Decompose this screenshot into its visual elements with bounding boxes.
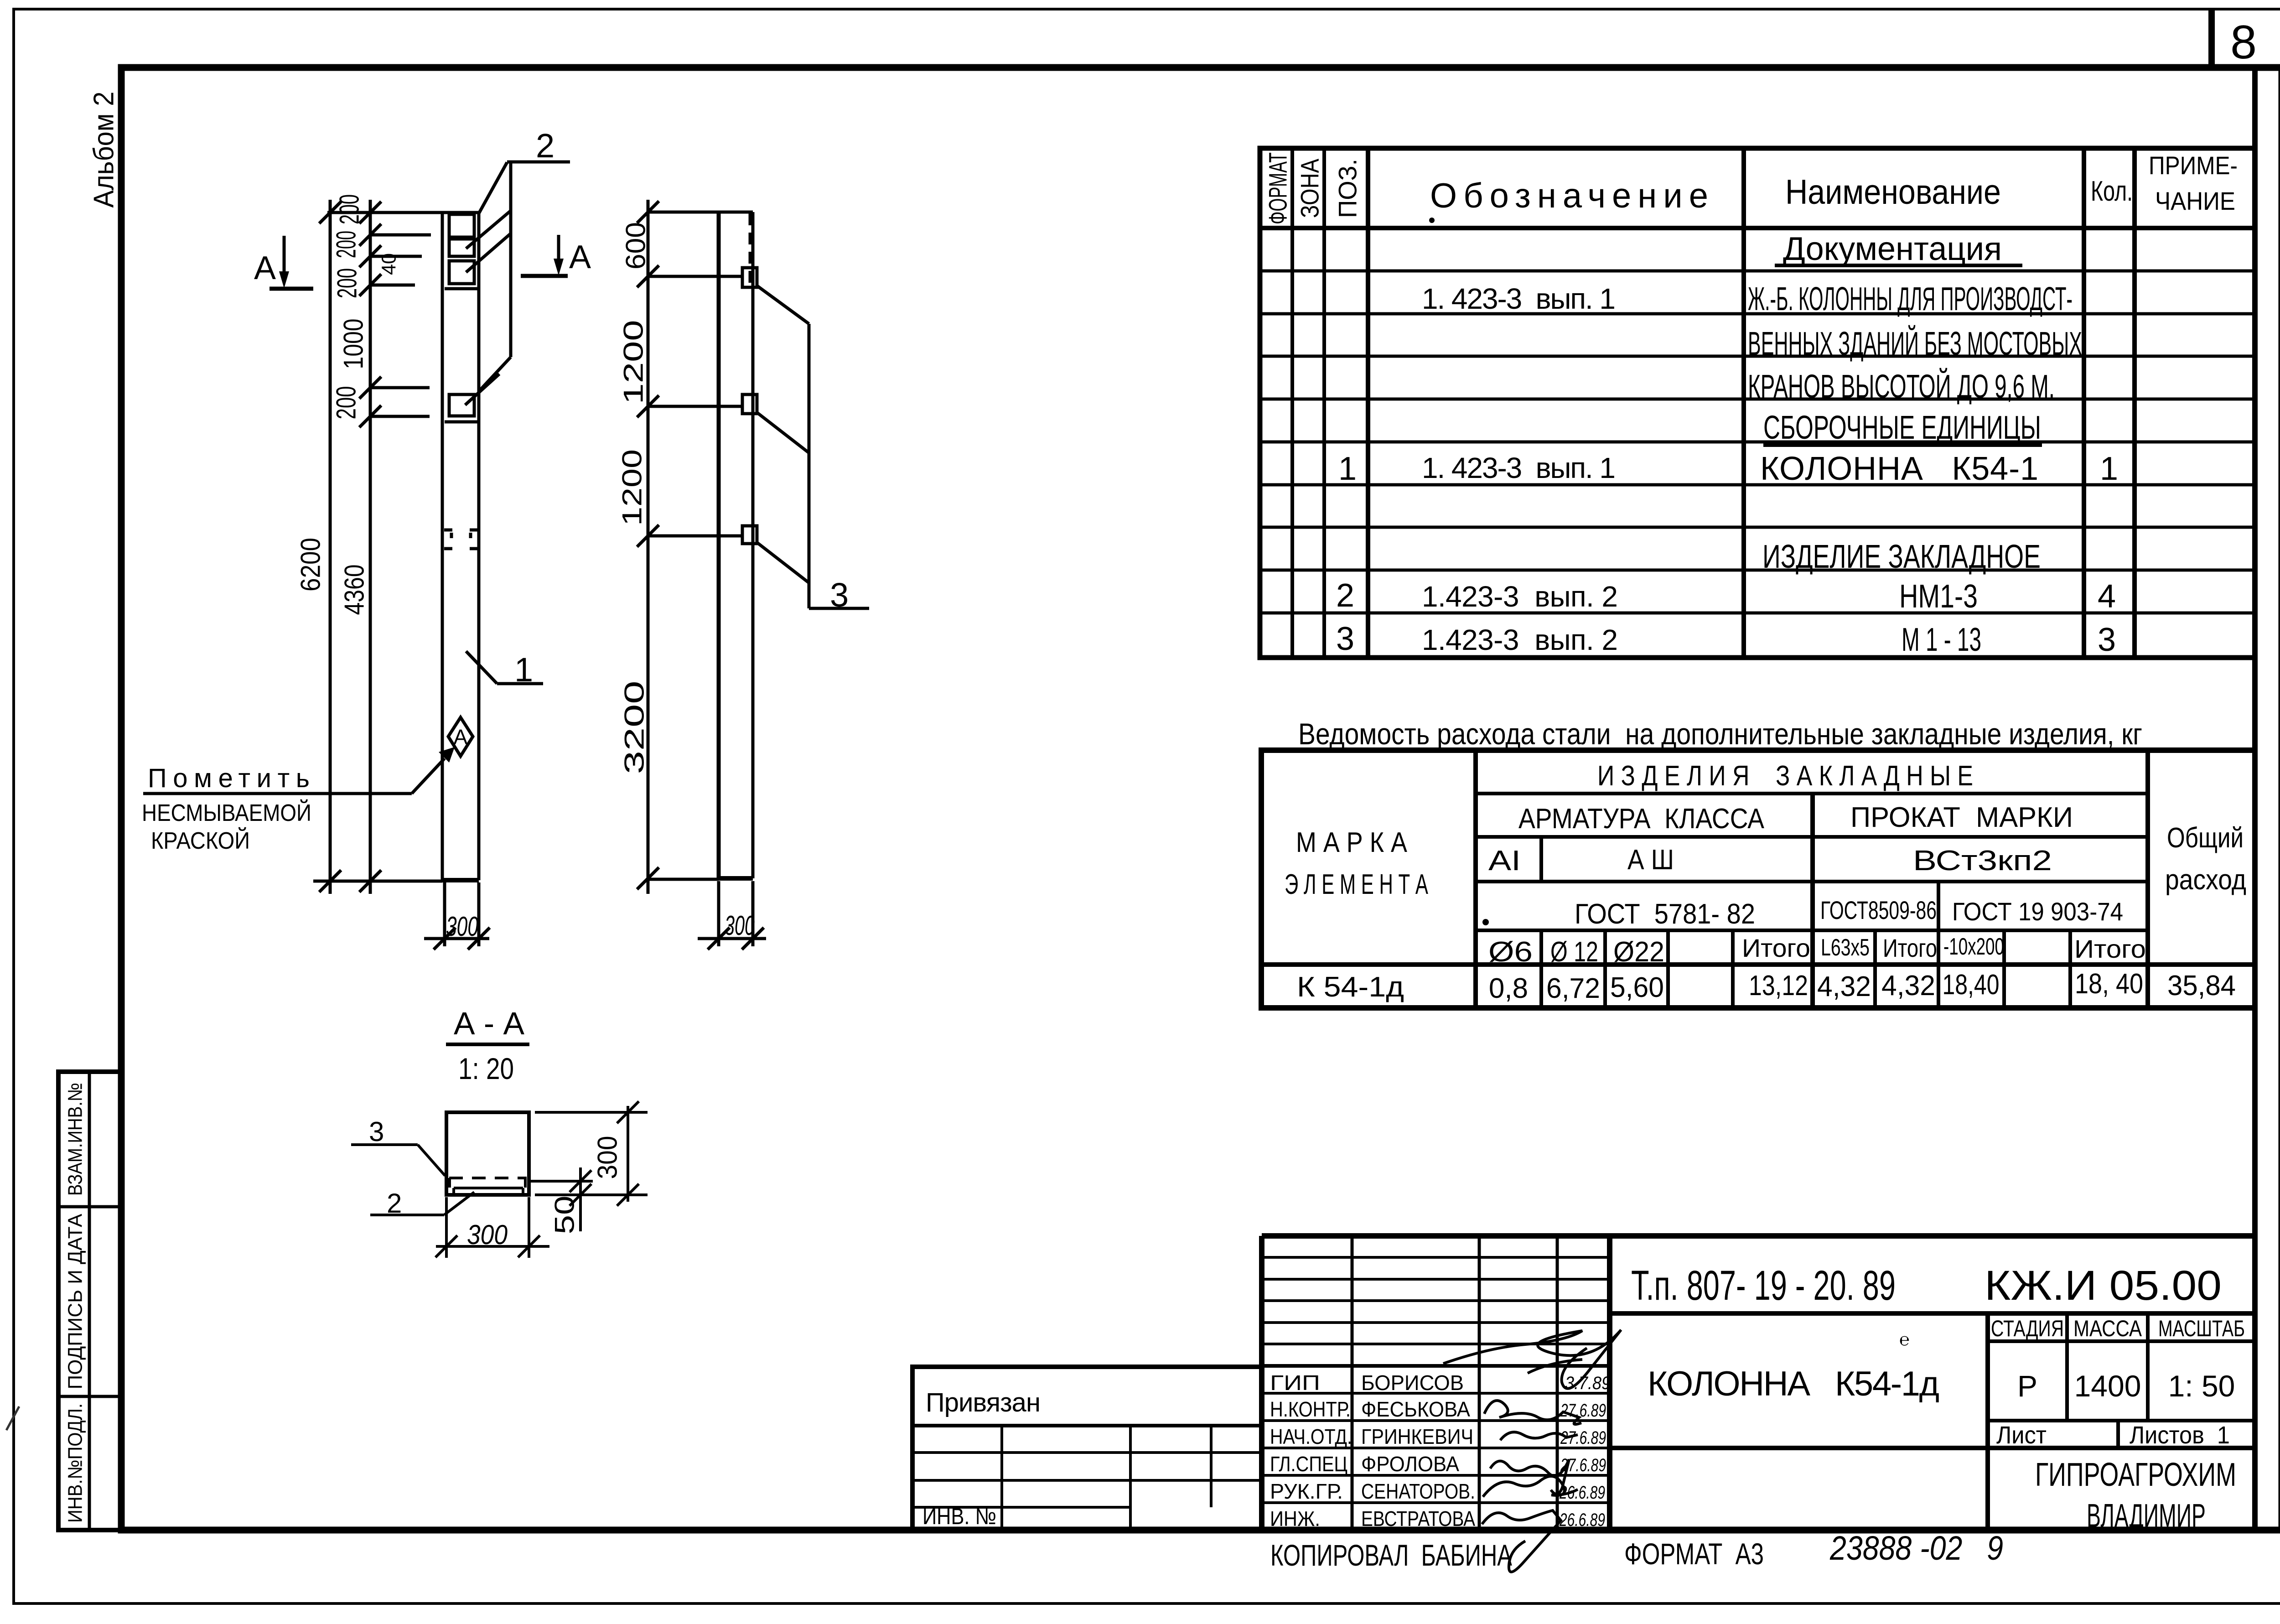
svg-text:3: 3 — [369, 1116, 384, 1147]
svg-text:МАСШТАБ: МАСШТАБ — [2158, 1316, 2245, 1341]
svg-text:A: A — [569, 239, 591, 275]
svg-text:ВЕННЫХ ЗДАНИЙ БЕЗ МОСТОВЫХ: ВЕННЫХ ЗДАНИЙ БЕЗ МОСТОВЫХ — [1748, 325, 2082, 362]
svg-text:Ø6: Ø6 — [1488, 936, 1533, 968]
svg-text:200: 200 — [331, 386, 362, 420]
svg-text:ПОДПИСЬ И ДАТА: ПОДПИСЬ И ДАТА — [64, 1214, 87, 1390]
svg-text:ИНВ.№ПОДЛ.: ИНВ.№ПОДЛ. — [64, 1403, 87, 1523]
svg-text:3: 3 — [830, 576, 849, 614]
svg-text:Итого: Итого — [1883, 934, 1937, 962]
svg-text:ИНЖ.: ИНЖ. — [1270, 1507, 1320, 1531]
svg-text:Итого: Итого — [1742, 934, 1810, 962]
svg-text:1: 1 — [514, 651, 533, 689]
svg-text:ВЗАМ.ИНВ.№: ВЗАМ.ИНВ.№ — [64, 1083, 87, 1196]
svg-text:Документация: Документация — [1783, 231, 2002, 267]
svg-text:4: 4 — [2098, 578, 2116, 615]
svg-text:Ж.-Б. КОЛОННЫ ДЛЯ ПРОИЗВОДСТ-: Ж.-Б. КОЛОННЫ ДЛЯ ПРОИЗВОДСТ- — [1748, 281, 2073, 317]
svg-text:ФОРМАТ А3: ФОРМАТ А3 — [1624, 1537, 1764, 1571]
svg-text:5,60: 5,60 — [1610, 972, 1664, 1003]
svg-text:ИЗДЕЛИЕ ЗАКЛАДНОЕ: ИЗДЕЛИЕ ЗАКЛАДНОЕ — [1762, 539, 2041, 575]
svg-text:1000: 1000 — [338, 319, 369, 369]
svg-text:Альбом 2: Альбом 2 — [88, 92, 120, 208]
svg-text:ГИПРОАГРОХИМ: ГИПРОАГРОХИМ — [2035, 1457, 2236, 1493]
svg-text:А: А — [454, 725, 468, 749]
svg-text:200: 200 — [332, 268, 363, 298]
svg-text:200: 200 — [334, 194, 365, 224]
svg-text:Т.п. 807- 19 - 20. 89: Т.п. 807- 19 - 20. 89 — [1631, 1262, 1896, 1309]
svg-text:МАССА: МАССА — [2073, 1316, 2142, 1341]
svg-text:40: 40 — [378, 253, 400, 275]
svg-text:1200: 1200 — [618, 320, 649, 405]
svg-text:НАЧ.ОТД.: НАЧ.ОТД. — [1270, 1425, 1352, 1448]
svg-text:Н.КОНТР.: Н.КОНТР. — [1270, 1397, 1351, 1421]
svg-text:НЕСМЫВАЕМОЙ: НЕСМЫВАЕМОЙ — [142, 799, 311, 826]
svg-text:4360: 4360 — [339, 565, 370, 615]
svg-text:ВЛАДИМИР: ВЛАДИМИР — [2087, 1498, 2206, 1534]
svg-text:18, 40: 18, 40 — [2075, 968, 2143, 1000]
svg-text:расход: расход — [2165, 864, 2246, 896]
svg-text:ГИП: ГИП — [1270, 1371, 1320, 1395]
svg-text:СБОРОЧНЫЕ ЕДИНИЦЫ: СБОРОЧНЫЕ ЕДИНИЦЫ — [1763, 410, 2041, 446]
svg-text:К 54-1д: К 54-1д — [1297, 971, 1404, 1003]
svg-text:1.423-3 вып. 2: 1.423-3 вып. 2 — [1422, 623, 1618, 656]
svg-text:1. 423-3 вып. 1: 1. 423-3 вып. 1 — [1422, 282, 1616, 315]
svg-text:А - А: А - А — [454, 1006, 524, 1041]
svg-text:КЖ.И 05.00: КЖ.И 05.00 — [1985, 1262, 2222, 1309]
svg-text:Листов 1: Листов 1 — [2130, 1422, 2230, 1449]
svg-text:300: 300 — [467, 1219, 508, 1250]
svg-text:50: 50 — [549, 1196, 580, 1235]
svg-text:ГОСТ8509-86: ГОСТ8509-86 — [1820, 896, 1937, 924]
svg-text:Итого: Итого — [2074, 934, 2146, 963]
svg-text:ГОСТ 19 903-74: ГОСТ 19 903-74 — [1952, 897, 2123, 926]
svg-text:2: 2 — [1336, 577, 1354, 614]
svg-text:Ø 12: Ø 12 — [1550, 936, 1598, 968]
svg-text:27.6.89: 27.6.89 — [1560, 1401, 1606, 1421]
svg-text:1: 1 — [1338, 451, 1357, 487]
svg-text:НМ1-3: НМ1-3 — [1899, 578, 1978, 615]
svg-text:ГРИНКЕВИЧ: ГРИНКЕВИЧ — [1361, 1425, 1473, 1448]
svg-text:8: 8 — [2230, 16, 2257, 69]
svg-text:Р: Р — [2017, 1369, 2037, 1403]
svg-text:КОЛОННА К54-1д: КОЛОННА К54-1д — [1648, 1365, 1939, 1403]
svg-text:6,72: 6,72 — [1546, 973, 1600, 1004]
svg-text:300: 300 — [592, 1136, 623, 1179]
svg-text:26.6.89: 26.6.89 — [1559, 1510, 1605, 1530]
svg-text:1: 1 — [2100, 451, 2118, 487]
svg-text:Э Л Е М Е Н Т А: Э Л Е М Е Н Т А — [1285, 869, 1428, 900]
svg-text:1400: 1400 — [2074, 1369, 2141, 1403]
svg-text:ПОЗ.: ПОЗ. — [1333, 159, 1362, 218]
svg-text:300: 300 — [446, 911, 478, 942]
svg-text:1200: 1200 — [617, 449, 648, 526]
svg-text:23888 -02 9: 23888 -02 9 — [1829, 1529, 2003, 1567]
svg-text:Ø22: Ø22 — [1613, 936, 1664, 968]
svg-text:ЧАНИЕ: ЧАНИЕ — [2155, 187, 2235, 215]
svg-text:℮: ℮ — [1899, 1330, 1910, 1349]
svg-text:ФОРМАТ: ФОРМАТ — [1264, 152, 1292, 224]
svg-text:ЕВСТРАТОВА: ЕВСТРАТОВА — [1361, 1507, 1475, 1531]
svg-text:0,8: 0,8 — [1489, 973, 1528, 1004]
svg-text:АРМАТУРА КЛАССА: АРМАТУРА КЛАССА — [1518, 803, 1765, 835]
svg-text:2: 2 — [387, 1188, 402, 1219]
svg-text:1.423-3 вып. 2: 1.423-3 вып. 2 — [1422, 580, 1618, 613]
svg-text:Привязан: Привязан — [926, 1388, 1041, 1417]
svg-text:ЗОНА: ЗОНА — [1295, 158, 1324, 218]
svg-text:Обозначение: Обозначение — [1430, 176, 1708, 215]
svg-text:Общий: Общий — [2167, 822, 2244, 854]
svg-text:200: 200 — [331, 231, 362, 258]
svg-text:600: 600 — [621, 222, 651, 270]
svg-text:М 1 - 13: М 1 - 13 — [1902, 622, 1981, 658]
svg-text:ФЕСЬКОВА: ФЕСЬКОВА — [1361, 1397, 1470, 1421]
svg-text:СЕНАТОРОВ.: СЕНАТОРОВ. — [1361, 1479, 1475, 1503]
svg-text:3: 3 — [1336, 621, 1354, 657]
svg-text:КОЛОННА К54-1: КОЛОННА К54-1 — [1760, 451, 2038, 487]
svg-text:ГОСТ 5781- 82: ГОСТ 5781- 82 — [1575, 898, 1755, 930]
svg-text:АI: АI — [1488, 845, 1521, 877]
svg-text:Лист: Лист — [1996, 1422, 2047, 1449]
svg-text:6200: 6200 — [295, 538, 326, 591]
svg-text:300: 300 — [725, 910, 755, 941]
svg-text:ПРИМЕ-: ПРИМЕ- — [2149, 151, 2238, 180]
svg-text:ВСт3кп2: ВСт3кп2 — [1913, 845, 2052, 877]
svg-text:ПРОКАТ МАРКИ: ПРОКАТ МАРКИ — [1850, 802, 2073, 833]
svg-text:A: A — [254, 250, 276, 286]
svg-text:Ведомость расхода стали на до: Ведомость расхода стали на дополнительны… — [1298, 717, 2142, 751]
svg-text:ФРОЛОВА: ФРОЛОВА — [1361, 1452, 1459, 1476]
svg-text:35,84: 35,84 — [2167, 970, 2236, 1001]
svg-text:L63x5: L63x5 — [1821, 934, 1870, 961]
svg-text:2: 2 — [536, 127, 554, 165]
svg-text:1: 50: 1: 50 — [2168, 1369, 2235, 1403]
svg-text:3: 3 — [2098, 622, 2116, 658]
svg-text:4,32: 4,32 — [1817, 971, 1871, 1002]
svg-text:БОРИСОВ: БОРИСОВ — [1361, 1371, 1464, 1395]
svg-text:КРАНОВ ВЫСОТОЙ ДО 9,6 М.: КРАНОВ ВЫСОТОЙ ДО 9,6 М. — [1748, 368, 2055, 405]
svg-text:СТАДИЯ: СТАДИЯ — [1991, 1316, 2064, 1341]
svg-text:-10x200: -10x200 — [1943, 934, 2004, 960]
svg-text:Кол.: Кол. — [2091, 176, 2133, 207]
svg-text:ГЛ.СПЕЦ: ГЛ.СПЕЦ — [1270, 1452, 1347, 1476]
svg-text:ИНВ. №: ИНВ. № — [922, 1504, 996, 1529]
svg-text:1. 423-3 вып. 1: 1. 423-3 вып. 1 — [1422, 451, 1616, 484]
svg-text:КРАСКОЙ: КРАСКОЙ — [151, 827, 250, 854]
svg-text:КОПИРОВАЛ БАБИНА: КОПИРОВАЛ БАБИНА — [1270, 1538, 1512, 1572]
svg-text:3.7.89: 3.7.89 — [1565, 1373, 1611, 1393]
svg-text:13,12: 13,12 — [1749, 970, 1808, 1001]
svg-text:РУК.ГР.: РУК.ГР. — [1270, 1479, 1343, 1503]
svg-text:Наименование: Наименование — [1785, 173, 2001, 212]
svg-text:И З Д Е Л И Я З А К Л А Д Н: И З Д Е Л И Я З А К Л А Д Н Ы Е — [1597, 760, 1973, 792]
svg-text:М А Р К А: М А Р К А — [1296, 827, 1408, 858]
svg-text:3200: 3200 — [619, 681, 650, 774]
svg-text:18,40: 18,40 — [1943, 969, 2000, 1001]
svg-text:4,32: 4,32 — [1881, 970, 1935, 1001]
svg-text:А Ш: А Ш — [1627, 844, 1674, 876]
svg-text:1: 20: 1: 20 — [458, 1052, 514, 1085]
